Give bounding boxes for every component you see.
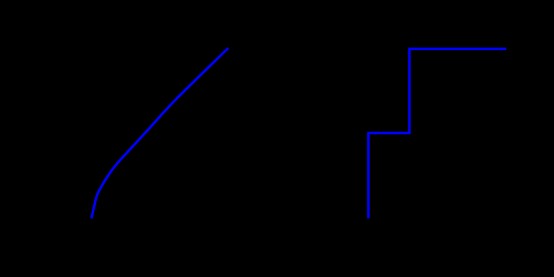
left plot: blue concave CDF curve (91, 48, 228, 219)
right plot: blue step function (two steps of 0.5) (368, 49, 506, 219)
